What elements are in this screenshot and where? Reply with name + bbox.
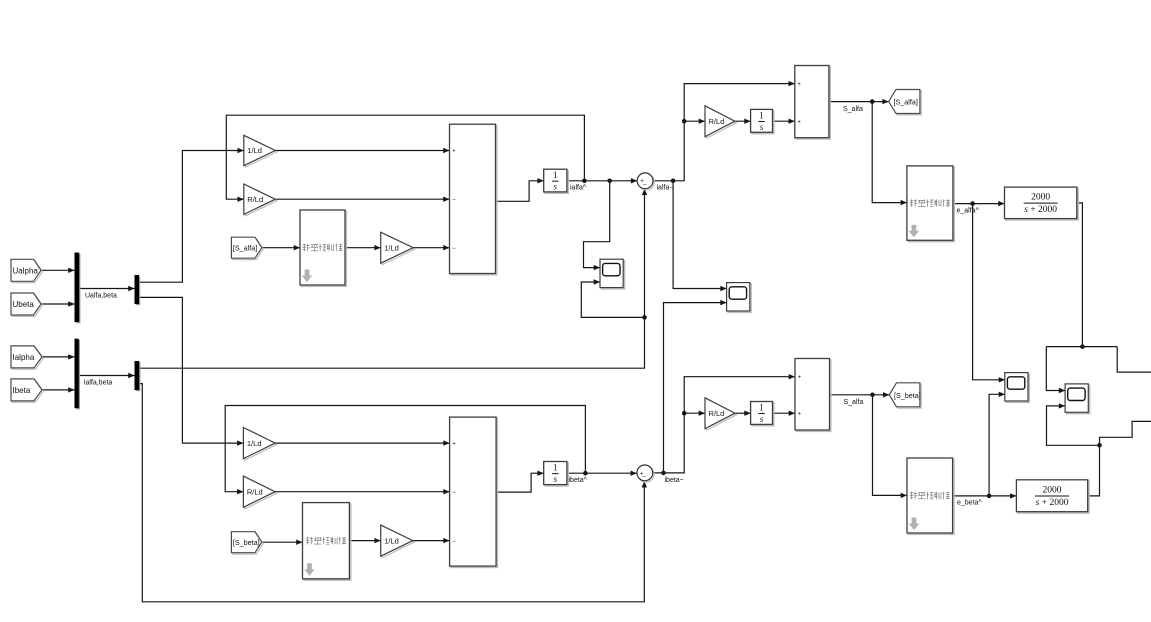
svg-text:ialfa−: ialfa−: [657, 185, 674, 192]
svg-text:s: s: [760, 122, 764, 132]
svg-text:s: s: [760, 414, 764, 424]
svg-text:S_alfa: S_alfa: [843, 106, 863, 113]
svg-text:1/Ld: 1/Ld: [384, 536, 399, 545]
svg-text:ialfa^: ialfa^: [570, 185, 587, 192]
svg-text:e_beta^: e_beta^: [957, 500, 982, 507]
svg-text:Ialpha: Ialpha: [13, 353, 35, 362]
svg-text:2000: 2000: [1043, 486, 1062, 496]
svg-text:+: +: [452, 441, 456, 447]
svg-text:ibeta−: ibeta−: [665, 477, 684, 484]
svg-text:R/Ld: R/Ld: [247, 195, 263, 204]
svg-text:+: +: [797, 82, 801, 88]
svg-text:[S_alfa]: [S_alfa]: [233, 244, 257, 253]
svg-text:1: 1: [759, 402, 764, 412]
svg-text:Ualpha: Ualpha: [13, 266, 39, 275]
svg-text:+: +: [797, 119, 801, 125]
svg-text:[S_beta]: [S_beta]: [233, 538, 260, 547]
svg-text:+: +: [798, 411, 802, 417]
svg-text:−: −: [643, 182, 647, 189]
svg-text:ibeta^: ibeta^: [569, 477, 588, 484]
svg-text:1: 1: [553, 170, 558, 180]
svg-text:−: −: [642, 474, 646, 481]
svg-text:−: −: [452, 197, 456, 203]
svg-text:−: −: [452, 490, 456, 496]
svg-text:Ibeta: Ibeta: [13, 386, 31, 395]
svg-text:1: 1: [553, 463, 558, 473]
svg-text:R/Ld: R/Ld: [247, 487, 263, 496]
svg-text:−: −: [452, 246, 456, 252]
svg-text:1: 1: [759, 110, 764, 120]
svg-text:2000: 2000: [1031, 193, 1050, 203]
svg-text:+: +: [452, 149, 456, 155]
svg-text:R/Ld: R/Ld: [709, 117, 725, 126]
svg-text:[S_alfa]: [S_alfa]: [894, 98, 918, 107]
svg-text:1/Ld: 1/Ld: [247, 146, 262, 155]
svg-text:s: s: [554, 182, 558, 192]
svg-text:+: +: [798, 375, 802, 381]
svg-text:[S_beta]: [S_beta]: [894, 391, 921, 400]
svg-text:s: s: [554, 474, 558, 484]
svg-text:Ialfa,beta: Ialfa,beta: [84, 380, 113, 387]
svg-text:R/Ld: R/Ld: [709, 409, 725, 418]
svg-text:Ualfa,beta: Ualfa,beta: [85, 293, 117, 300]
svg-text:1/Ld: 1/Ld: [247, 439, 262, 448]
svg-text:e_alfa^: e_alfa^: [957, 207, 980, 214]
svg-text:s + 2000: s + 2000: [1024, 205, 1057, 215]
svg-text:Ubeta: Ubeta: [13, 300, 35, 309]
svg-text:−: −: [452, 539, 456, 545]
svg-text:S_alfa: S_alfa: [844, 399, 864, 406]
svg-text:s + 2000: s + 2000: [1036, 498, 1069, 508]
svg-text:1/Ld: 1/Ld: [384, 243, 399, 252]
